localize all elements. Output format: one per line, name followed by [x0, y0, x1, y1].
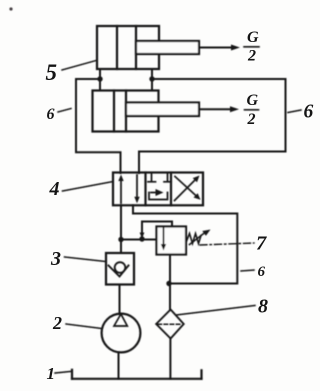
svg-text:2: 2	[247, 48, 256, 65]
svg-text:2: 2	[247, 111, 256, 128]
svg-text:2: 2	[52, 313, 62, 333]
svg-text:4: 4	[49, 178, 60, 200]
svg-text:3: 3	[50, 248, 61, 270]
svg-text:8: 8	[258, 295, 268, 317]
svg-text:G: G	[247, 92, 259, 109]
svg-text:6: 6	[258, 264, 266, 280]
svg-text:5: 5	[46, 60, 58, 85]
svg-text:7: 7	[256, 232, 267, 254]
svg-text:G: G	[247, 29, 259, 46]
svg-text:6: 6	[47, 106, 55, 123]
svg-text:1: 1	[47, 364, 56, 383]
svg-text:6: 6	[304, 101, 314, 122]
